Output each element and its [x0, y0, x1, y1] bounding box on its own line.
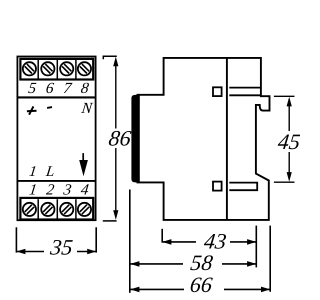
bottom terminal band: [20, 198, 93, 220]
35 left extension line: [15, 227, 17, 252]
45 top tick: [274, 95, 295, 97]
58 dimension line: [130, 263, 183, 265]
minus mark: [47, 106, 52, 109]
screw terminal 1: [23, 203, 36, 216]
bottom band divider 1: [37, 199, 39, 219]
screw terminal 2: [41, 203, 54, 216]
top ledge line upper: [229, 87, 261, 89]
86 bottom tick: [103, 220, 117, 222]
top band divider 1: [37, 60, 39, 80]
screw terminal 5: [23, 62, 36, 75]
43 dimension line: [162, 241, 196, 243]
top band divider 3: [75, 60, 77, 80]
bottom band divider 2: [56, 199, 58, 219]
front face plate (black): [131, 95, 139, 182]
top band divider 2: [56, 60, 58, 80]
86 top tick: [103, 56, 117, 59]
square pin bottom: [213, 182, 222, 191]
screw terminal 7: [60, 62, 73, 75]
svg-text:86: 86: [107, 126, 132, 151]
internal divider line: [226, 58, 228, 220]
screw terminal 3: [60, 203, 73, 216]
svg-text:66: 66: [189, 272, 214, 297]
front view outer box: [17, 57, 95, 221]
bottom band divider 3: [75, 199, 77, 219]
bottom ledge (U shape): [229, 183, 257, 191]
43 left extension elbow: [161, 229, 163, 243]
output down arrow: [79, 153, 88, 176]
svg-text:L: L: [44, 164, 55, 180]
35 dimension line: [16, 251, 44, 253]
screw terminal 4: [78, 203, 91, 216]
top terminal band: [20, 59, 93, 80]
separator line under 5678: [17, 96, 95, 98]
43/58 right extension line: [255, 226, 257, 268]
svg-text:45: 45: [277, 129, 300, 154]
66 right extension line: [269, 226, 271, 292]
45 bottom tick: [274, 181, 295, 183]
square pin top: [213, 87, 222, 96]
screw terminal 8: [78, 62, 91, 75]
separator line above 1234: [17, 180, 95, 182]
screw terminal 6: [41, 62, 54, 75]
66 dimension line: [130, 288, 184, 290]
86 dimension line: [115, 60, 117, 129]
side view body outline: [137, 58, 270, 220]
58 left extension line: [129, 190, 131, 293]
plus mark: [27, 106, 37, 114]
45 dimension line: [288, 99, 290, 131]
35 right extension line: [95, 227, 97, 252]
top ledge line lower: [229, 94, 261, 96]
svg-text:35: 35: [48, 234, 74, 259]
